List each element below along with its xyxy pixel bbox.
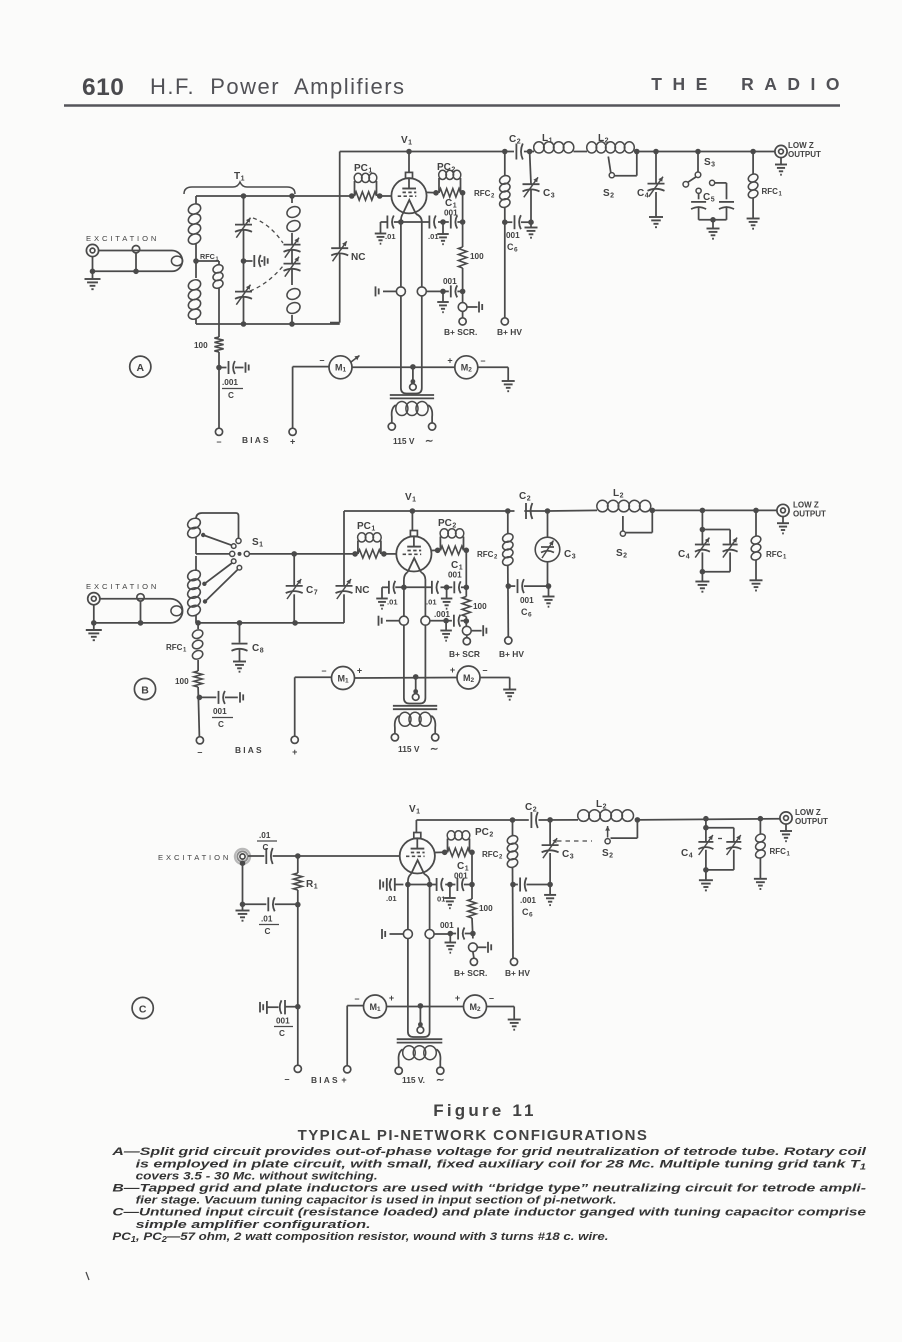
svg-text:C: C [507, 242, 514, 252]
wire M2 to ground (B) [480, 677, 510, 679]
svg-text:115 V: 115 V [393, 436, 415, 446]
wire output line (C) [637, 819, 779, 820]
capacitor .01 bypass left (B) [382, 586, 389, 588]
output terminal (C) [780, 812, 792, 824]
capacitor C3 variable (C) [549, 820, 551, 845]
ground C4 (B) [695, 581, 709, 583]
svg-text:100: 100 [194, 341, 208, 350]
designator circle B [134, 678, 155, 699]
wire tank right branch (A) [291, 196, 293, 203]
svg-text:+: + [292, 747, 297, 757]
svg-text:BIAS: BIAS [235, 745, 264, 755]
wire filament lead 2 (B) [424, 580, 426, 617]
inductor T1 grid coil lower (A) [187, 278, 203, 292]
capacitor C8 (B) [239, 623, 241, 643]
inductor RFC2 (B) [507, 511, 509, 534]
feedthrough fil 2 (A) [417, 287, 426, 296]
resistor-coil PC1 (B) [352, 551, 358, 557]
capacitor .01 fil bypass mid (A) [428, 216, 430, 229]
wire filament lead 2 (C) [429, 882, 431, 930]
meter M1 (C) [347, 1005, 363, 1007]
inductor RFC1 output (C) [759, 819, 761, 834]
gang dashed link upper (A) [253, 218, 283, 243]
ground mid row1 (C) [449, 885, 451, 899]
wire bias plus to meter (A) [292, 367, 294, 429]
meter M2 (B) [457, 666, 480, 689]
svg-text:B: B [141, 684, 149, 696]
ground C3 (A) [530, 222, 532, 227]
capacitor C7 variable (B) [293, 554, 295, 586]
svg-text:C: C [522, 907, 529, 917]
capacitor 001 bias (B) [199, 696, 216, 698]
inductor L2 (B) [597, 500, 608, 512]
svg-text:6: 6 [529, 912, 533, 919]
svg-text:.01: .01 [386, 894, 397, 903]
ground C6 (C) [549, 885, 551, 895]
capacitor .01 fil bypass left (A) [381, 221, 388, 223]
svg-text:.01: .01 [428, 232, 439, 241]
svg-text:OUTPUT: OUTPUT [795, 817, 828, 826]
ground M2 (C) [508, 1019, 521, 1021]
svg-text:A—Split grid circuit provides: A—Split grid circuit provides out-of-pha… [111, 1146, 867, 1158]
wire grid to tube (B) [384, 553, 397, 555]
capacitor C3 variable (A) [523, 183, 540, 185]
resistor-coil PC2 (C) [442, 850, 448, 856]
wire screen chain (B) [465, 550, 467, 596]
wire link top (A) [99, 250, 160, 252]
svg-text:.01: .01 [426, 598, 437, 607]
capacitor 001 screen bypass (B) [453, 581, 455, 593]
resistor 100 screen (B) [462, 597, 470, 617]
capacitor C4 variable (A) [655, 152, 657, 184]
resistor-coil PC2 (A) [433, 190, 439, 196]
switch S3 (A) [697, 152, 699, 172]
output terminal (A) [775, 145, 787, 157]
svg-text:C: C [279, 1029, 285, 1038]
svg-text:100: 100 [473, 602, 487, 611]
svg-text:B+ HV: B+ HV [505, 968, 530, 978]
svg-text:6: 6 [528, 612, 532, 619]
svg-text:TYPICAL PI-NETWORK CONFIGURA: TYPICAL PI-NETWORK CONFIGURATIONS [298, 1127, 649, 1144]
tube V1 (C) [415, 820, 417, 833]
capacitor C6 (B) [508, 585, 515, 587]
input terminal (B) [88, 593, 100, 605]
ground C4 (A) [649, 216, 663, 218]
wire tap to RFC1 (A) [196, 260, 219, 262]
wire bias plus to meter (C) [346, 1006, 348, 1066]
resistor 100 screen (A) [458, 247, 466, 268]
ground output (C) [785, 824, 787, 831]
svg-text:–: – [284, 1074, 289, 1084]
ground C5 (A) [707, 228, 720, 230]
wire bias line (C) [297, 905, 299, 1066]
resistor 100 (B) [194, 671, 202, 687]
svg-text:RFC: RFC [770, 847, 787, 856]
svg-text:001: 001 [506, 231, 520, 240]
ground C8 (B) [233, 661, 246, 663]
svg-text:–: – [480, 356, 485, 366]
svg-text:OUTPUT: OUTPUT [788, 150, 821, 159]
tube V1 (A) [408, 152, 410, 173]
wire RFC2 to B+HV (C) [512, 867, 515, 958]
svg-text:NC: NC [355, 585, 369, 596]
svg-text:C: C [265, 927, 271, 936]
feedthrough screen (B) [462, 626, 471, 635]
svg-text:.01: .01 [387, 598, 398, 607]
wire output line (B) [652, 509, 776, 511]
capacitor .01 mid (B) [431, 581, 433, 594]
svg-text:–: – [197, 747, 202, 757]
svg-text:001: 001 [276, 1017, 290, 1026]
svg-text:.01: .01 [261, 915, 273, 924]
wire grid to tube (C) [400, 855, 402, 857]
meter M2 (C) [464, 995, 487, 1018]
ground C4 (C) [699, 879, 713, 881]
switch S1 lever 3 (B) [237, 565, 242, 570]
svg-text:100: 100 [470, 252, 484, 261]
svg-text:B+ HV: B+ HV [497, 327, 522, 337]
terminal bias minus (B) [196, 737, 203, 744]
capacitor 001 row2 (B) [446, 620, 452, 622]
capacitor C6 (C) [513, 884, 518, 886]
inductor L1 (A) [534, 142, 544, 153]
svg-text:–: – [482, 665, 487, 675]
wire meter row (C) [387, 1006, 464, 1008]
output terminal (B) [777, 504, 789, 516]
switch S2 tap (A) [636, 152, 638, 176]
capacitor aux variable lower (A) [284, 263, 301, 265]
wire NC vertical (A) [339, 152, 341, 249]
ground row2 (B) [445, 621, 447, 631]
switch S2 tap (C) [635, 817, 641, 823]
capacitor .01 bypass left (C) [379, 880, 381, 890]
svg-text:A: A [137, 362, 145, 374]
capacitor tank C lower variable (A) [235, 291, 252, 293]
capacitor 001 screen bypass (A) [450, 216, 452, 229]
inductor RFC1 (B) [197, 623, 199, 629]
feedthrough fil 1 (B) [399, 616, 408, 625]
wire terminal to cap (C) [248, 855, 264, 857]
capacitor NC variable (B) [343, 511, 345, 586]
feedthrough fil 1 (C) [403, 930, 412, 939]
wire meter row (B) [355, 677, 457, 680]
terminal B+HV (A) [501, 318, 508, 325]
inductor L2 (A) [587, 142, 597, 153]
svg-text:LOW Z: LOW Z [788, 141, 814, 150]
ground output (B) [782, 517, 784, 524]
inductor RFC2 (C) [512, 820, 514, 836]
resistor 100 grid (A) [214, 337, 223, 352]
capacitor aux variable upper (A) [284, 244, 301, 246]
svg-text:RFC: RFC [474, 189, 491, 198]
svg-text:C: C [139, 1003, 147, 1015]
svg-text:B+ SCR.: B+ SCR. [444, 327, 477, 337]
inductor RFC1 output (B) [755, 510, 757, 536]
capacitor C6 (A) [505, 221, 513, 223]
svg-text:.01: .01 [385, 232, 396, 241]
input terminal (C) [235, 849, 250, 864]
resistor R1 (C) [297, 856, 299, 873]
terminal B+SCR (A) [459, 318, 466, 325]
svg-text:RFC: RFC [477, 550, 494, 559]
svg-text:B+ HV: B+ HV [499, 649, 524, 659]
svg-text:∼: ∼ [430, 744, 438, 755]
wire bias (A) [218, 352, 220, 428]
svg-text:115 V.: 115 V. [402, 1075, 425, 1085]
terminal B+HV (B) [505, 637, 512, 644]
terminal bias plus (A) [289, 428, 296, 435]
capacitor .01 input (C) [265, 848, 267, 864]
inductor aux coil lower (A) [285, 287, 302, 302]
ground M2 (B) [503, 689, 516, 691]
ground C6 (B) [548, 586, 550, 596]
terminal bias plus (B) [291, 736, 298, 743]
ground row2 (C) [449, 934, 451, 943]
svg-text:PC1, PC2—57 ohm, 2 watt compos: PC1, PC2—57 ohm, 2 watt composition resi… [112, 1231, 608, 1244]
svg-text:B+ SCR.: B+ SCR. [454, 968, 487, 978]
wire link return (B) [94, 623, 160, 630]
svg-text:001: 001 [443, 277, 457, 286]
svg-text:∼: ∼ [436, 1075, 444, 1086]
switch S1 common (B) [196, 553, 230, 555]
terminal B+SCR (C) [470, 958, 477, 965]
wire bypass row1 (C) [408, 884, 436, 886]
capacitor trimmer mid (A) [244, 260, 253, 262]
filament center tap (C) [419, 1006, 421, 1024]
wire screen chain (C) [471, 852, 473, 899]
transformer 115V (A) [390, 394, 434, 396]
capacitor 001 row2 (A) [443, 290, 449, 292]
terminal B+HV (C) [510, 958, 517, 965]
node grid coil center tap (A) [193, 258, 199, 264]
transformer 115V (B) [393, 705, 437, 707]
ground mid row1 (B) [446, 587, 448, 598]
wire screen to PC2 (C) [435, 851, 445, 853]
terminal stub (B) [137, 594, 144, 601]
tube V1 (B) [411, 511, 413, 531]
svg-text:RFC: RFC [482, 850, 499, 859]
wire meter row (A) [352, 366, 455, 368]
wire terminal down (B) [93, 605, 95, 623]
svg-text:115 V: 115 V [398, 744, 420, 754]
svg-text:+: + [357, 666, 362, 676]
svg-text:.001: .001 [520, 896, 536, 905]
svg-text:.01: .01 [259, 831, 271, 840]
ground .01 left (B) [376, 598, 388, 600]
wire terminal down (A) [92, 257, 94, 272]
svg-text:C: C [218, 720, 224, 729]
svg-text:–: – [321, 666, 326, 676]
svg-text:001: 001 [440, 921, 454, 930]
wire link return (A) [93, 270, 161, 272]
switch S1 lever 1 (B) [201, 533, 205, 537]
switch S1 contact top (B) [236, 538, 241, 543]
meter M1 needle (A) [351, 356, 360, 363]
ground input (A) [85, 278, 101, 280]
wire screen to PC2 (B) [431, 549, 437, 551]
inductor RFC1 grid (A) [218, 261, 220, 265]
feedthrough fil 2 (C) [425, 930, 434, 939]
resistor-coil PC2 (B) [435, 548, 441, 554]
wire link top (B) [100, 598, 160, 600]
filament center tap (B) [415, 677, 417, 691]
capacitor C4 dual variable (B) [701, 510, 703, 529]
capacitor C5 left (A) [696, 188, 701, 193]
feedthrough screen (A) [458, 303, 467, 312]
wire screen chain (A) [462, 193, 464, 247]
wire plate top (A) [340, 151, 514, 153]
svg-text:01: 01 [437, 895, 446, 904]
link coupling loop (A) [160, 251, 182, 272]
svg-text:THE RADIO: THE RADIO [651, 74, 850, 94]
svg-text:100: 100 [175, 677, 189, 686]
svg-text:E X C I T A T I O N: E X C I T A T I O N [86, 234, 157, 243]
svg-text:fier stage. Vacuum tuning capa: fier stage. Vacuum tuning capacitor is u… [136, 1195, 617, 1207]
meter M1 (B) [295, 676, 332, 678]
capacitor .01 mid (C) [436, 878, 438, 891]
wire filament lead 1 (B) [403, 580, 405, 617]
feedthrough fil 1 (A) [396, 287, 405, 296]
svg-text:BIAS: BIAS [242, 435, 271, 445]
svg-text:.001: .001 [434, 610, 450, 619]
svg-text:simple amplifier configuration: simple amplifier configuration. [136, 1219, 371, 1231]
terminal bias minus (C) [294, 1065, 301, 1072]
wire bias plus to meter (B) [294, 677, 296, 736]
wire screen to PC2 (A) [427, 191, 437, 193]
svg-text:E X C I T A T I O N: E X C I T A T I O N [86, 582, 157, 591]
header rule [64, 104, 840, 107]
svg-text:RFC: RFC [766, 550, 783, 559]
terminal bias minus (A) [215, 428, 222, 435]
ground row2 (A) [442, 291, 444, 302]
brace T1 [184, 182, 295, 194]
terminal stub (A) [132, 246, 139, 253]
wire C5 bottom (A) [699, 219, 727, 221]
wire shield down (C) [240, 860, 246, 866]
gang dashed link lower (A) [250, 266, 283, 291]
capacitor C3 vacuum variable (B) [547, 511, 549, 537]
svg-text:+: + [450, 665, 455, 675]
wire bias (B) [198, 687, 199, 737]
switch S2 tap (B) [650, 508, 656, 514]
svg-text:+: + [455, 993, 460, 1003]
wire RFC2 to B+HV (A) [504, 207, 506, 318]
wire cap to R1 (C) [273, 855, 401, 857]
feedthrough screen (C) [469, 943, 478, 952]
svg-text:covers 3.5 - 30 Mc. without sw: covers 3.5 - 30 Mc. without switching. [136, 1170, 378, 1182]
wire plate top (C) [416, 819, 528, 821]
svg-text:H.F. Power Amplifiers: H.F. Power Amplifiers [150, 74, 406, 99]
svg-text:NC: NC [351, 252, 365, 263]
svg-text:–: – [319, 355, 324, 365]
svg-text:–: – [354, 994, 359, 1004]
terminal B+SCR (B) [463, 638, 470, 645]
ground input (B) [86, 629, 102, 631]
svg-text:100: 100 [479, 904, 493, 913]
wire plate top (B) [344, 510, 515, 512]
svg-text:001: 001 [520, 596, 534, 605]
wire fil bypass row (A) [394, 221, 429, 223]
capacitor NC neutralizing (A) [331, 247, 348, 249]
svg-text:–: – [216, 437, 221, 447]
wire M2 to ground (A) [478, 366, 508, 368]
svg-text:Figure 11: Figure 11 [433, 1101, 536, 1120]
ground output (A) [780, 158, 782, 165]
svg-text:001: 001 [213, 707, 227, 716]
inductor tank coil upper (B) [196, 513, 239, 538]
ground M2 (A) [502, 380, 515, 382]
meter M1 (A) [293, 366, 329, 368]
svg-text:LOW Z: LOW Z [795, 808, 821, 817]
svg-text:+: + [341, 1075, 346, 1085]
svg-text:LOW Z: LOW Z [793, 501, 819, 510]
wire filament lead 2 (A) [421, 222, 423, 287]
wire RFC1 to resistor (A) [218, 288, 220, 337]
gang dashed line (C) [557, 840, 592, 842]
wire grid to tube (A) [380, 195, 392, 197]
svg-text:RFC: RFC [200, 252, 215, 261]
capacitor tank C upper variable (A) [235, 224, 252, 226]
ground input (C) [242, 904, 244, 910]
stray mark bottom left [86, 1272, 89, 1280]
svg-text:E X C I T A T I O N: E X C I T A T I O N [158, 853, 229, 862]
svg-text:6: 6 [514, 247, 518, 254]
ground RFC1 (C) [754, 878, 767, 880]
wire filament lead 1 (A) [400, 222, 402, 287]
ground mid row1 (A) [442, 222, 444, 234]
meter M2 (A) [455, 356, 478, 379]
link coupling loop (B) [160, 599, 183, 623]
svg-text:001: 001 [448, 571, 462, 580]
wire tank bottom (B) [196, 622, 344, 624]
capacitor C2 (A) [515, 144, 517, 160]
svg-text:C: C [521, 607, 528, 617]
node tank mid (A) [241, 258, 247, 264]
switch S1 lever 2 (B) [231, 559, 236, 564]
filament center tap (A) [412, 367, 414, 381]
svg-text:RFC: RFC [166, 643, 183, 652]
capacitor C2 (B) [525, 503, 527, 519]
wire RFC2 to B+HV (B) [507, 565, 510, 637]
ground RFC1 (B) [750, 579, 763, 581]
terminal bias plus (C) [344, 1066, 351, 1073]
inductor tank coil lower (B) [195, 556, 197, 571]
capacitor .001 bias (A) [219, 367, 227, 369]
inductor RFC2 (A) [504, 152, 506, 177]
designator circle A [130, 356, 151, 377]
designator circle C [132, 997, 153, 1018]
svg-text:is employed in plate circuit,: is employed in plate circuit, with small… [136, 1158, 867, 1171]
svg-text:B+ SCR: B+ SCR [449, 649, 480, 659]
svg-text:C—Untuned input circuit (resis: C—Untuned input circuit (resistance load… [112, 1207, 866, 1219]
svg-text:BIAS: BIAS [311, 1075, 340, 1085]
svg-text:1: 1 [216, 257, 219, 263]
inductor L2 (C) [578, 810, 590, 822]
wire tank bottom (A) [196, 323, 340, 325]
feedthrough fil 2 (B) [421, 616, 430, 625]
svg-text:610: 610 [82, 74, 124, 101]
svg-text:OUTPUT: OUTPUT [793, 510, 826, 519]
ground .01 left (A) [375, 233, 387, 235]
ground RFC1 (A) [747, 218, 760, 220]
svg-text:.001: .001 [222, 378, 238, 387]
wire bypass row1 (B) [395, 586, 431, 588]
capacitor 001 row2 (C) [450, 933, 456, 935]
svg-text:+: + [389, 993, 394, 1003]
capacitor .001 bias (C) [259, 1002, 261, 1013]
svg-text:+: + [447, 356, 452, 366]
svg-text:C: C [263, 843, 269, 852]
